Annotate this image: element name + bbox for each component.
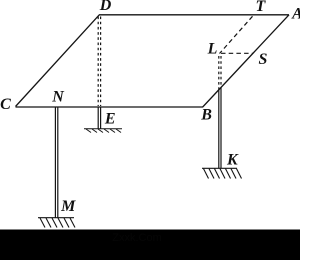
svg-text:N: N	[51, 88, 65, 105]
ground at K	[202, 168, 242, 178]
svg-text:D: D	[99, 0, 112, 14]
svg-text:S: S	[259, 51, 268, 68]
svg-text:Zxxk.Com: Zxxk.Com	[112, 232, 162, 244]
leg NM (left leg, double line)	[55, 107, 57, 218]
svg-text:A: A	[291, 5, 300, 22]
ground at M	[38, 218, 75, 228]
svg-text:L: L	[207, 41, 218, 58]
ground at E	[84, 129, 122, 133]
dashed double line L down to AB	[219, 56, 221, 89]
svg-text:T: T	[256, 0, 267, 15]
leg stub below edge to E ground	[98, 107, 100, 129]
leg BK (right leg, double line)	[219, 89, 221, 169]
dashed line T to L	[220, 16, 253, 53]
edge AB (right slant)	[203, 15, 289, 107]
bottom black bar	[0, 230, 300, 261]
svg-text:C: C	[0, 96, 11, 113]
edge CD (left slant)	[16, 15, 100, 107]
edge CB (bottom edge of table)	[16, 106, 204, 108]
dashed line L to S (horizontal, meets AB)	[221, 52, 253, 54]
svg-text:M: M	[60, 198, 76, 215]
svg-text:K: K	[226, 152, 239, 169]
svg-text:E: E	[104, 110, 116, 127]
dashed double line D to edge (hidden line DE)	[98, 17, 100, 107]
svg-text:B: B	[200, 106, 212, 123]
edge DA (top edge of table)	[99, 14, 289, 16]
